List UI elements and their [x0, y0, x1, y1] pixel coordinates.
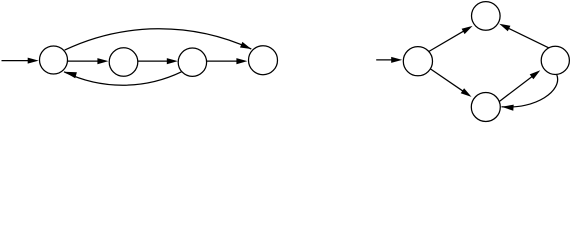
arrow B3 to B4 [499, 70, 541, 102]
state B1 [403, 47, 432, 76]
state B3 (bottom) [471, 93, 500, 122]
state B2 (top) [472, 2, 501, 31]
arrow B1 to B2 (top) [427, 26, 473, 53]
curved arrow A3 back to A1 (below) [64, 72, 182, 85]
arrow B1 to B3 (bottom) [431, 69, 472, 97]
state A3 [178, 48, 206, 76]
arrow A1 to A2 [67, 58, 108, 64]
arrow A3 to A4 [207, 58, 248, 64]
two finite-state-machine diagrams [0, 0, 572, 124]
curved arrow B4 to B3 (below) [502, 75, 558, 111]
state A4 [249, 46, 278, 75]
state A2 [109, 48, 138, 77]
arrow B4 to B2 (top) [499, 24, 549, 48]
state A1 [40, 46, 68, 74]
arrow A2 to A3 [138, 58, 178, 64]
start arrow into state B1 [376, 57, 402, 63]
curved arrow A1 to A4 (over top) [65, 29, 252, 50]
state B4 (right) [541, 46, 569, 74]
start arrow into state A1 [2, 58, 39, 64]
